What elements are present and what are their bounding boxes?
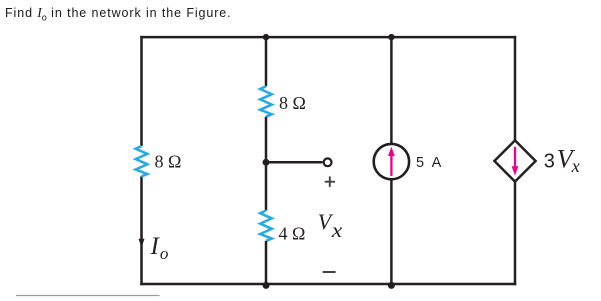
arrow of current source (up) xyxy=(388,147,395,176)
svg-text:5: 5 xyxy=(416,155,424,171)
current arrow Io on left branch xyxy=(139,239,145,248)
separator line (bottom left, top of answer box) xyxy=(16,295,160,297)
svg-text:3: 3 xyxy=(544,151,555,173)
svg-text:8 Ω: 8 Ω xyxy=(155,151,182,171)
minus sign of Vx xyxy=(323,271,336,273)
node dot: middle branch at stub xyxy=(263,159,270,166)
wire: left branch lower segment xyxy=(140,176,143,285)
current source I1 5A xyxy=(374,144,409,179)
wire: middle branch between resistors xyxy=(265,117,268,211)
svg-text:4 Ω: 4 Ω xyxy=(279,224,306,244)
svg-text:Io: Io xyxy=(150,233,169,263)
svg-text:x: x xyxy=(331,218,343,242)
title: Find Io in the network in the Figure. xyxy=(5,5,232,23)
wire: middle branch below 4 ohm xyxy=(265,241,268,285)
wire: top rail xyxy=(140,36,516,39)
resistor R2 8ohm (middle branch top) xyxy=(260,86,272,116)
resistor R1 8ohm (left branch) xyxy=(136,146,148,176)
wire: right branch below dependent source xyxy=(514,182,517,285)
wire: middle branch above 8 ohm xyxy=(265,36,268,86)
node dot: bottom of middle branch xyxy=(263,282,270,289)
svg-text:A: A xyxy=(432,155,442,171)
open terminal (node) xyxy=(324,158,332,166)
node dot: bottom of source branch xyxy=(388,282,395,289)
svg-text:8 Ω: 8 Ω xyxy=(279,93,306,113)
wire: right branch above dependent source xyxy=(514,36,517,140)
svg-text:x: x xyxy=(571,156,580,176)
wire: source branch below current source xyxy=(390,180,393,285)
wire: source branch above current source xyxy=(390,36,393,144)
wire: horizontal stub to open terminal xyxy=(266,161,323,164)
node dot: top of middle branch xyxy=(263,34,269,40)
arrow of dependent source (down) xyxy=(512,147,519,176)
resistor R3 4ohm (middle branch bottom) xyxy=(260,211,272,241)
node dot: top of source branch xyxy=(388,34,394,40)
dependent source U1 3Vx (diamond) xyxy=(494,140,535,181)
wire: bottom rail xyxy=(140,283,516,286)
wire: left branch upper segment xyxy=(140,36,143,146)
plus sign of Vx xyxy=(325,176,335,187)
